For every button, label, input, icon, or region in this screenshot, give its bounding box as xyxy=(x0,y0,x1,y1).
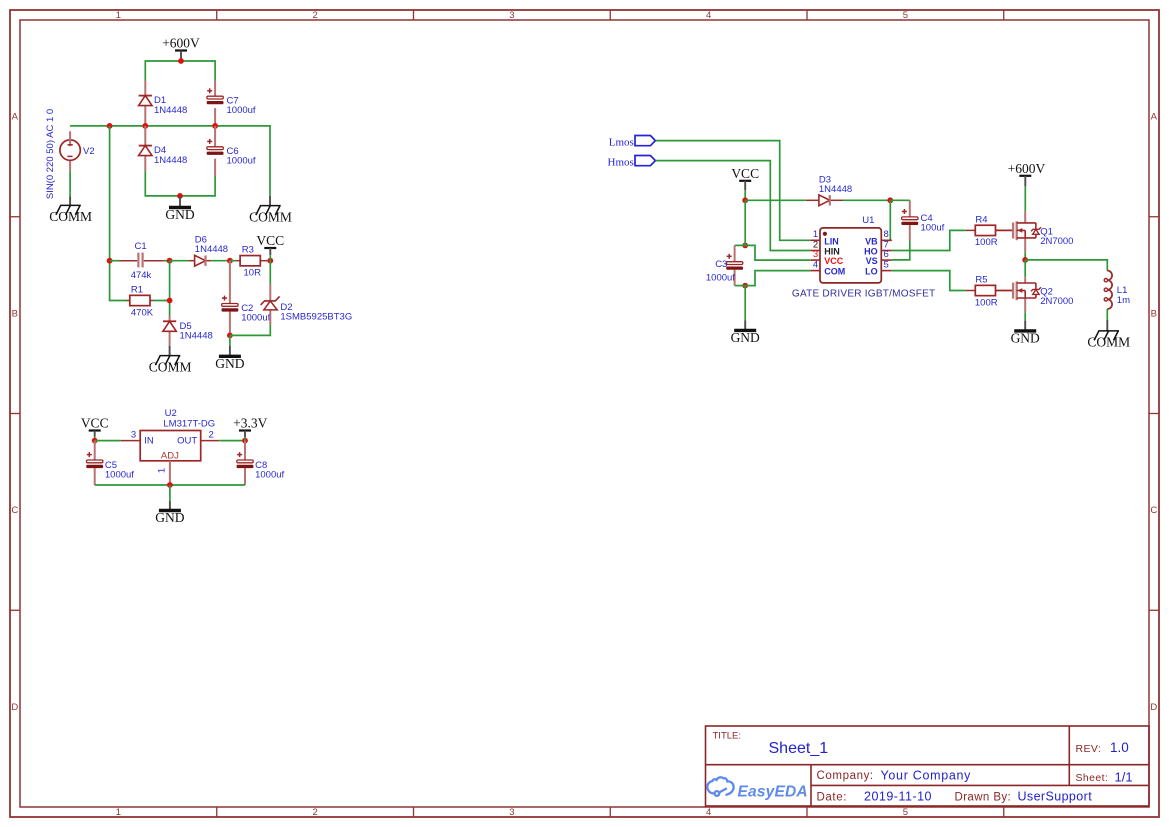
transistor Q2 2N7000 xyxy=(1013,277,1073,312)
svg-text:Your Company: Your Company xyxy=(881,768,972,782)
svg-text:UserSupport: UserSupport xyxy=(1018,790,1093,804)
svg-text:LIN: LIN xyxy=(824,236,839,246)
svg-text:+600V: +600V xyxy=(162,36,200,51)
svg-text:C1: C1 xyxy=(135,241,147,252)
svg-text:5: 5 xyxy=(903,807,908,818)
svg-text:SIN(0 220 50) AC 1 0: SIN(0 220 50) AC 1 0 xyxy=(45,109,56,199)
capacitor C5 1000uf xyxy=(86,441,134,485)
ground GND (clamp) xyxy=(215,335,244,370)
wire Q1 source to node xyxy=(1024,252,1026,260)
net flag +600V (driver) xyxy=(1008,161,1046,212)
svg-text:2: 2 xyxy=(209,430,214,441)
svg-text:1000uf: 1000uf xyxy=(255,469,284,480)
svg-text:Lmos: Lmos xyxy=(609,136,634,148)
svg-text:5: 5 xyxy=(884,259,889,270)
wire VCC to D3 xyxy=(745,199,806,201)
svg-text:+3.3V: +3.3V xyxy=(233,416,267,431)
wire VCC to pin3 xyxy=(95,440,121,442)
wire C3 bottom to cap xyxy=(735,285,746,287)
svg-text:COMM: COMM xyxy=(1087,335,1130,350)
resistor R3 10R xyxy=(236,245,267,279)
wire D6 node to D5 node xyxy=(169,261,171,316)
svg-text:GND: GND xyxy=(215,356,244,371)
capacitor C3 1000uf xyxy=(706,245,743,285)
svg-text:OUT: OUT xyxy=(177,435,197,446)
svg-text:3: 3 xyxy=(813,249,818,260)
svg-text:A: A xyxy=(1151,112,1158,123)
junction VB node xyxy=(887,197,893,203)
svg-text:1: 1 xyxy=(116,10,121,21)
junction C1-D6-R1 xyxy=(167,258,173,264)
wire Lmos to LIN xyxy=(656,141,811,241)
svg-text:Sheet:: Sheet: xyxy=(1076,772,1109,784)
svg-text:6: 6 xyxy=(884,249,889,260)
svg-text:HIN: HIN xyxy=(824,247,840,257)
ground GND (Q2) xyxy=(1011,330,1040,345)
svg-text:GATE DRIVER IGBT/MOSFET: GATE DRIVER IGBT/MOSFET xyxy=(792,289,936,300)
svg-text:2: 2 xyxy=(313,807,318,818)
junction C1 row left xyxy=(107,258,113,264)
svg-text:REV:: REV: xyxy=(1076,743,1102,755)
wire C3 bottom to pin4 COM xyxy=(745,271,810,286)
junction C2 bottom xyxy=(227,333,233,339)
svg-text:1000uf: 1000uf xyxy=(227,105,256,116)
svg-text:1: 1 xyxy=(116,807,121,818)
svg-text:GND: GND xyxy=(731,330,760,345)
svg-text:4: 4 xyxy=(706,10,711,21)
svg-text:470K: 470K xyxy=(131,307,154,318)
junction C3 bottom xyxy=(742,283,748,289)
diode D3 1N4448 xyxy=(806,174,852,205)
wire C1 left xyxy=(110,260,120,262)
svg-text:V2: V2 xyxy=(83,146,95,157)
svg-text:R5: R5 xyxy=(975,275,987,286)
svg-text:100uf: 100uf xyxy=(921,222,945,233)
zener diode D2 1SMB5925BT3G xyxy=(261,261,353,325)
svg-text:2N7000: 2N7000 xyxy=(1040,296,1073,307)
svg-text:4: 4 xyxy=(706,807,711,818)
wire D6 to C2 node xyxy=(211,260,230,262)
wire C3 to GND xyxy=(744,286,746,329)
ground GND (C3) xyxy=(731,330,760,345)
net flag VCC (driver) xyxy=(731,166,759,201)
svg-text:100R: 100R xyxy=(975,237,998,248)
junction C3 top xyxy=(742,243,748,249)
wire R3 to VCC node xyxy=(267,260,270,262)
EasyEDA logo xyxy=(707,777,808,800)
capacitor C6 1000uf xyxy=(207,126,256,176)
svg-text:1: 1 xyxy=(156,468,167,473)
title block xyxy=(706,726,1150,806)
svg-text:3: 3 xyxy=(509,10,514,21)
svg-text:B: B xyxy=(12,308,18,319)
svg-text:A: A xyxy=(12,112,19,123)
wire node to Q2 drain xyxy=(1024,260,1026,277)
wire R1 to D5 node xyxy=(154,300,170,302)
wire Q2 source to GND xyxy=(1024,312,1026,329)
capacitor C4 100uf xyxy=(901,200,944,240)
junction mid rail A xyxy=(107,123,113,129)
svg-text:1N4448: 1N4448 xyxy=(819,184,852,195)
svg-text:U1: U1 xyxy=(862,215,874,226)
ground GND (regulator) xyxy=(155,485,184,525)
svg-text:VB: VB xyxy=(865,236,878,246)
inductor L1 1m xyxy=(1104,271,1130,309)
svg-text:LO: LO xyxy=(865,267,878,277)
svg-text:VS: VS xyxy=(866,256,878,266)
svg-text:D: D xyxy=(1150,702,1157,713)
svg-text:3: 3 xyxy=(131,430,136,441)
op-amp U2 LM317T-DG xyxy=(121,408,220,485)
svg-text:Company:: Company: xyxy=(817,770,874,782)
wire C3 top to cap xyxy=(735,244,746,246)
svg-text:2019-11-10: 2019-11-10 xyxy=(864,790,932,804)
svg-text:1N4448: 1N4448 xyxy=(195,244,228,255)
wire Hmos to HIN xyxy=(656,161,811,251)
junction GND rail xyxy=(177,193,183,199)
wire AC mid rail xyxy=(70,126,270,196)
junction VCC node xyxy=(267,258,273,264)
svg-text:474k: 474k xyxy=(131,270,152,281)
ground COMM (V2) xyxy=(49,205,92,224)
svg-text:1000uf: 1000uf xyxy=(706,273,735,284)
wire LO to R5 xyxy=(892,271,966,291)
svg-text:C: C xyxy=(11,505,18,516)
svg-text:1m: 1m xyxy=(1117,295,1130,306)
svg-text:COM: COM xyxy=(824,267,845,277)
junction half-bridge node xyxy=(1022,257,1028,263)
voltage source V2 xyxy=(45,109,95,199)
junction C2 top xyxy=(227,258,233,264)
net flag VCC (regulator) xyxy=(81,416,109,441)
capacitor C1 474k xyxy=(119,241,164,281)
svg-text:VCC: VCC xyxy=(731,166,759,181)
junction OUT-C8 xyxy=(242,438,248,444)
svg-text:COMM: COMM xyxy=(249,209,292,224)
svg-text:100R: 100R xyxy=(975,297,998,308)
wire D3 to VB node xyxy=(843,199,890,201)
transistor Q1 2N7000 xyxy=(1013,211,1073,252)
wire pin2 to +3.3V xyxy=(219,440,245,442)
svg-text:Hmos: Hmos xyxy=(608,156,634,168)
wire VB drop xyxy=(890,200,891,240)
svg-text:VCC: VCC xyxy=(81,416,109,431)
svg-text:HO: HO xyxy=(864,247,878,257)
ground COMM (C6 branch) xyxy=(249,196,292,224)
wire V2 to COMM xyxy=(69,171,71,206)
wire D2 to C2 bottom xyxy=(230,325,270,336)
wire C1 to D6 xyxy=(164,260,170,262)
svg-text:COMM: COMM xyxy=(49,209,92,224)
svg-text:3: 3 xyxy=(509,807,514,818)
svg-text:Sheet_1: Sheet_1 xyxy=(769,740,829,757)
svg-text:VCC: VCC xyxy=(256,233,284,248)
svg-text:LM317T-DG: LM317T-DG xyxy=(163,418,215,429)
diode D4 1N4448 xyxy=(139,126,188,171)
svg-text:Date:: Date: xyxy=(817,791,848,803)
junction mid rail C xyxy=(212,123,218,129)
svg-text:10R: 10R xyxy=(244,268,262,279)
svg-text:1.0: 1.0 xyxy=(1110,740,1129,755)
svg-text:TITLE:: TITLE: xyxy=(713,731,742,742)
svg-text:1/1: 1/1 xyxy=(1115,769,1133,784)
wire C3 top bracket xyxy=(744,200,746,245)
svg-text:Drawn By:: Drawn By: xyxy=(955,791,1012,803)
svg-text:1000uf: 1000uf xyxy=(105,469,134,480)
wire C2 node to R3 xyxy=(230,260,236,262)
svg-text:R1: R1 xyxy=(131,285,143,296)
svg-text:1N4448: 1N4448 xyxy=(154,105,187,116)
svg-text:R3: R3 xyxy=(242,245,254,256)
net port Hmos xyxy=(608,156,656,169)
ground GND (rectifier) xyxy=(165,196,194,222)
wire +600V rail top xyxy=(145,61,215,81)
svg-text:VCC: VCC xyxy=(824,256,844,266)
diode D6 1N4448 xyxy=(188,235,228,267)
diode D1 1N4448 xyxy=(139,81,188,126)
svg-text:4: 4 xyxy=(813,259,818,270)
svg-text:ADJ: ADJ xyxy=(161,451,179,462)
ground COMM (L1) xyxy=(1087,331,1130,350)
svg-text:2N7000: 2N7000 xyxy=(1040,236,1073,247)
svg-text:C3: C3 xyxy=(715,259,727,270)
wire regulator bottom rail xyxy=(95,484,245,486)
wire C4 to VS xyxy=(892,240,910,260)
junction mid rail B xyxy=(142,123,148,129)
wire node to L1 xyxy=(1025,260,1107,271)
wire L1 to COMM xyxy=(1106,309,1108,331)
svg-text:GND: GND xyxy=(165,207,194,222)
wire D6 left xyxy=(170,260,189,262)
svg-text:1SMB5925BT3G: 1SMB5925BT3G xyxy=(280,311,352,322)
svg-text:1N4448: 1N4448 xyxy=(180,331,213,342)
net flag VCC (clamp) xyxy=(256,233,284,261)
capacitor C2 1000uf xyxy=(222,261,271,336)
svg-text:EasyEDA: EasyEDA xyxy=(738,784,808,801)
svg-text:D: D xyxy=(11,702,18,713)
wire HO to R4 xyxy=(892,230,966,250)
junction R1-D5 xyxy=(167,298,173,304)
resistor R4 100R xyxy=(966,214,1013,248)
svg-text:5: 5 xyxy=(903,10,908,21)
net flag +600V (left) xyxy=(162,36,200,62)
ground COMM (D5) xyxy=(149,346,192,374)
svg-text:B: B xyxy=(1151,308,1157,319)
wire VB node to C4 xyxy=(890,199,910,201)
junction +600V rail xyxy=(178,58,184,64)
svg-text:IN: IN xyxy=(144,435,154,446)
svg-text:1N4448: 1N4448 xyxy=(154,155,187,166)
wire C3 top to pin3 VCC xyxy=(745,245,810,260)
resistor R5 100R xyxy=(966,275,1013,309)
svg-text:GND: GND xyxy=(155,510,184,525)
net port Lmos xyxy=(609,136,656,149)
svg-text:1000uf: 1000uf xyxy=(241,312,270,323)
svg-text:C: C xyxy=(1150,505,1157,516)
svg-text:2: 2 xyxy=(313,10,318,21)
resistor R1 470K xyxy=(127,285,154,319)
diode D5 1N4448 xyxy=(163,316,213,346)
svg-text:1000uf: 1000uf xyxy=(227,155,256,166)
net flag +3.3V xyxy=(233,416,267,441)
op-amp U1 gate driver IC xyxy=(792,215,936,300)
capacitor C8 1000uf xyxy=(237,441,285,485)
svg-text:+600V: +600V xyxy=(1008,161,1046,176)
svg-text:R4: R4 xyxy=(975,214,987,225)
wire left drop to C1 row xyxy=(110,126,127,301)
capacitor C7 1000uf xyxy=(207,81,256,126)
junction VCC-D3 xyxy=(742,197,748,203)
svg-text:COMM: COMM xyxy=(149,359,192,374)
junction VCC-C5 xyxy=(92,438,98,444)
junction ADJ xyxy=(167,482,173,488)
svg-text:GND: GND xyxy=(1011,330,1040,345)
wire GND rail bottom xyxy=(145,171,215,196)
